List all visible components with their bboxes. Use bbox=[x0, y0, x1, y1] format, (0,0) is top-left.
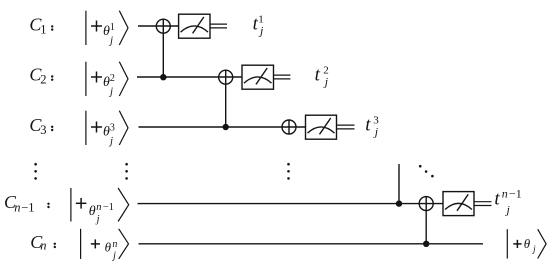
svg-text:3: 3 bbox=[110, 122, 115, 133]
svg-text:n: n bbox=[96, 202, 101, 213]
svg-text:θ: θ bbox=[89, 204, 96, 219]
svg-text:t: t bbox=[494, 188, 500, 209]
svg-text:−1: −1 bbox=[21, 201, 34, 215]
svg-text:j: j bbox=[111, 250, 116, 261]
svg-text:n: n bbox=[40, 239, 46, 253]
svg-text:1: 1 bbox=[40, 23, 46, 37]
svg-text:3: 3 bbox=[40, 123, 46, 137]
svg-text:n: n bbox=[14, 201, 20, 215]
svg-text:j: j bbox=[505, 202, 511, 216]
svg-text:t: t bbox=[315, 65, 321, 86]
svg-text:t: t bbox=[365, 115, 371, 136]
svg-text:−1: −1 bbox=[509, 187, 522, 201]
svg-text:n: n bbox=[112, 239, 117, 250]
svg-text:2: 2 bbox=[110, 73, 115, 84]
svg-text:−1: −1 bbox=[103, 202, 114, 213]
svg-text:2: 2 bbox=[40, 73, 46, 87]
svg-text:n: n bbox=[502, 187, 508, 201]
svg-text:1: 1 bbox=[110, 22, 115, 33]
svg-text:j: j bbox=[531, 245, 536, 255]
svg-text:θ: θ bbox=[105, 240, 112, 255]
svg-text:θ: θ bbox=[524, 236, 531, 251]
